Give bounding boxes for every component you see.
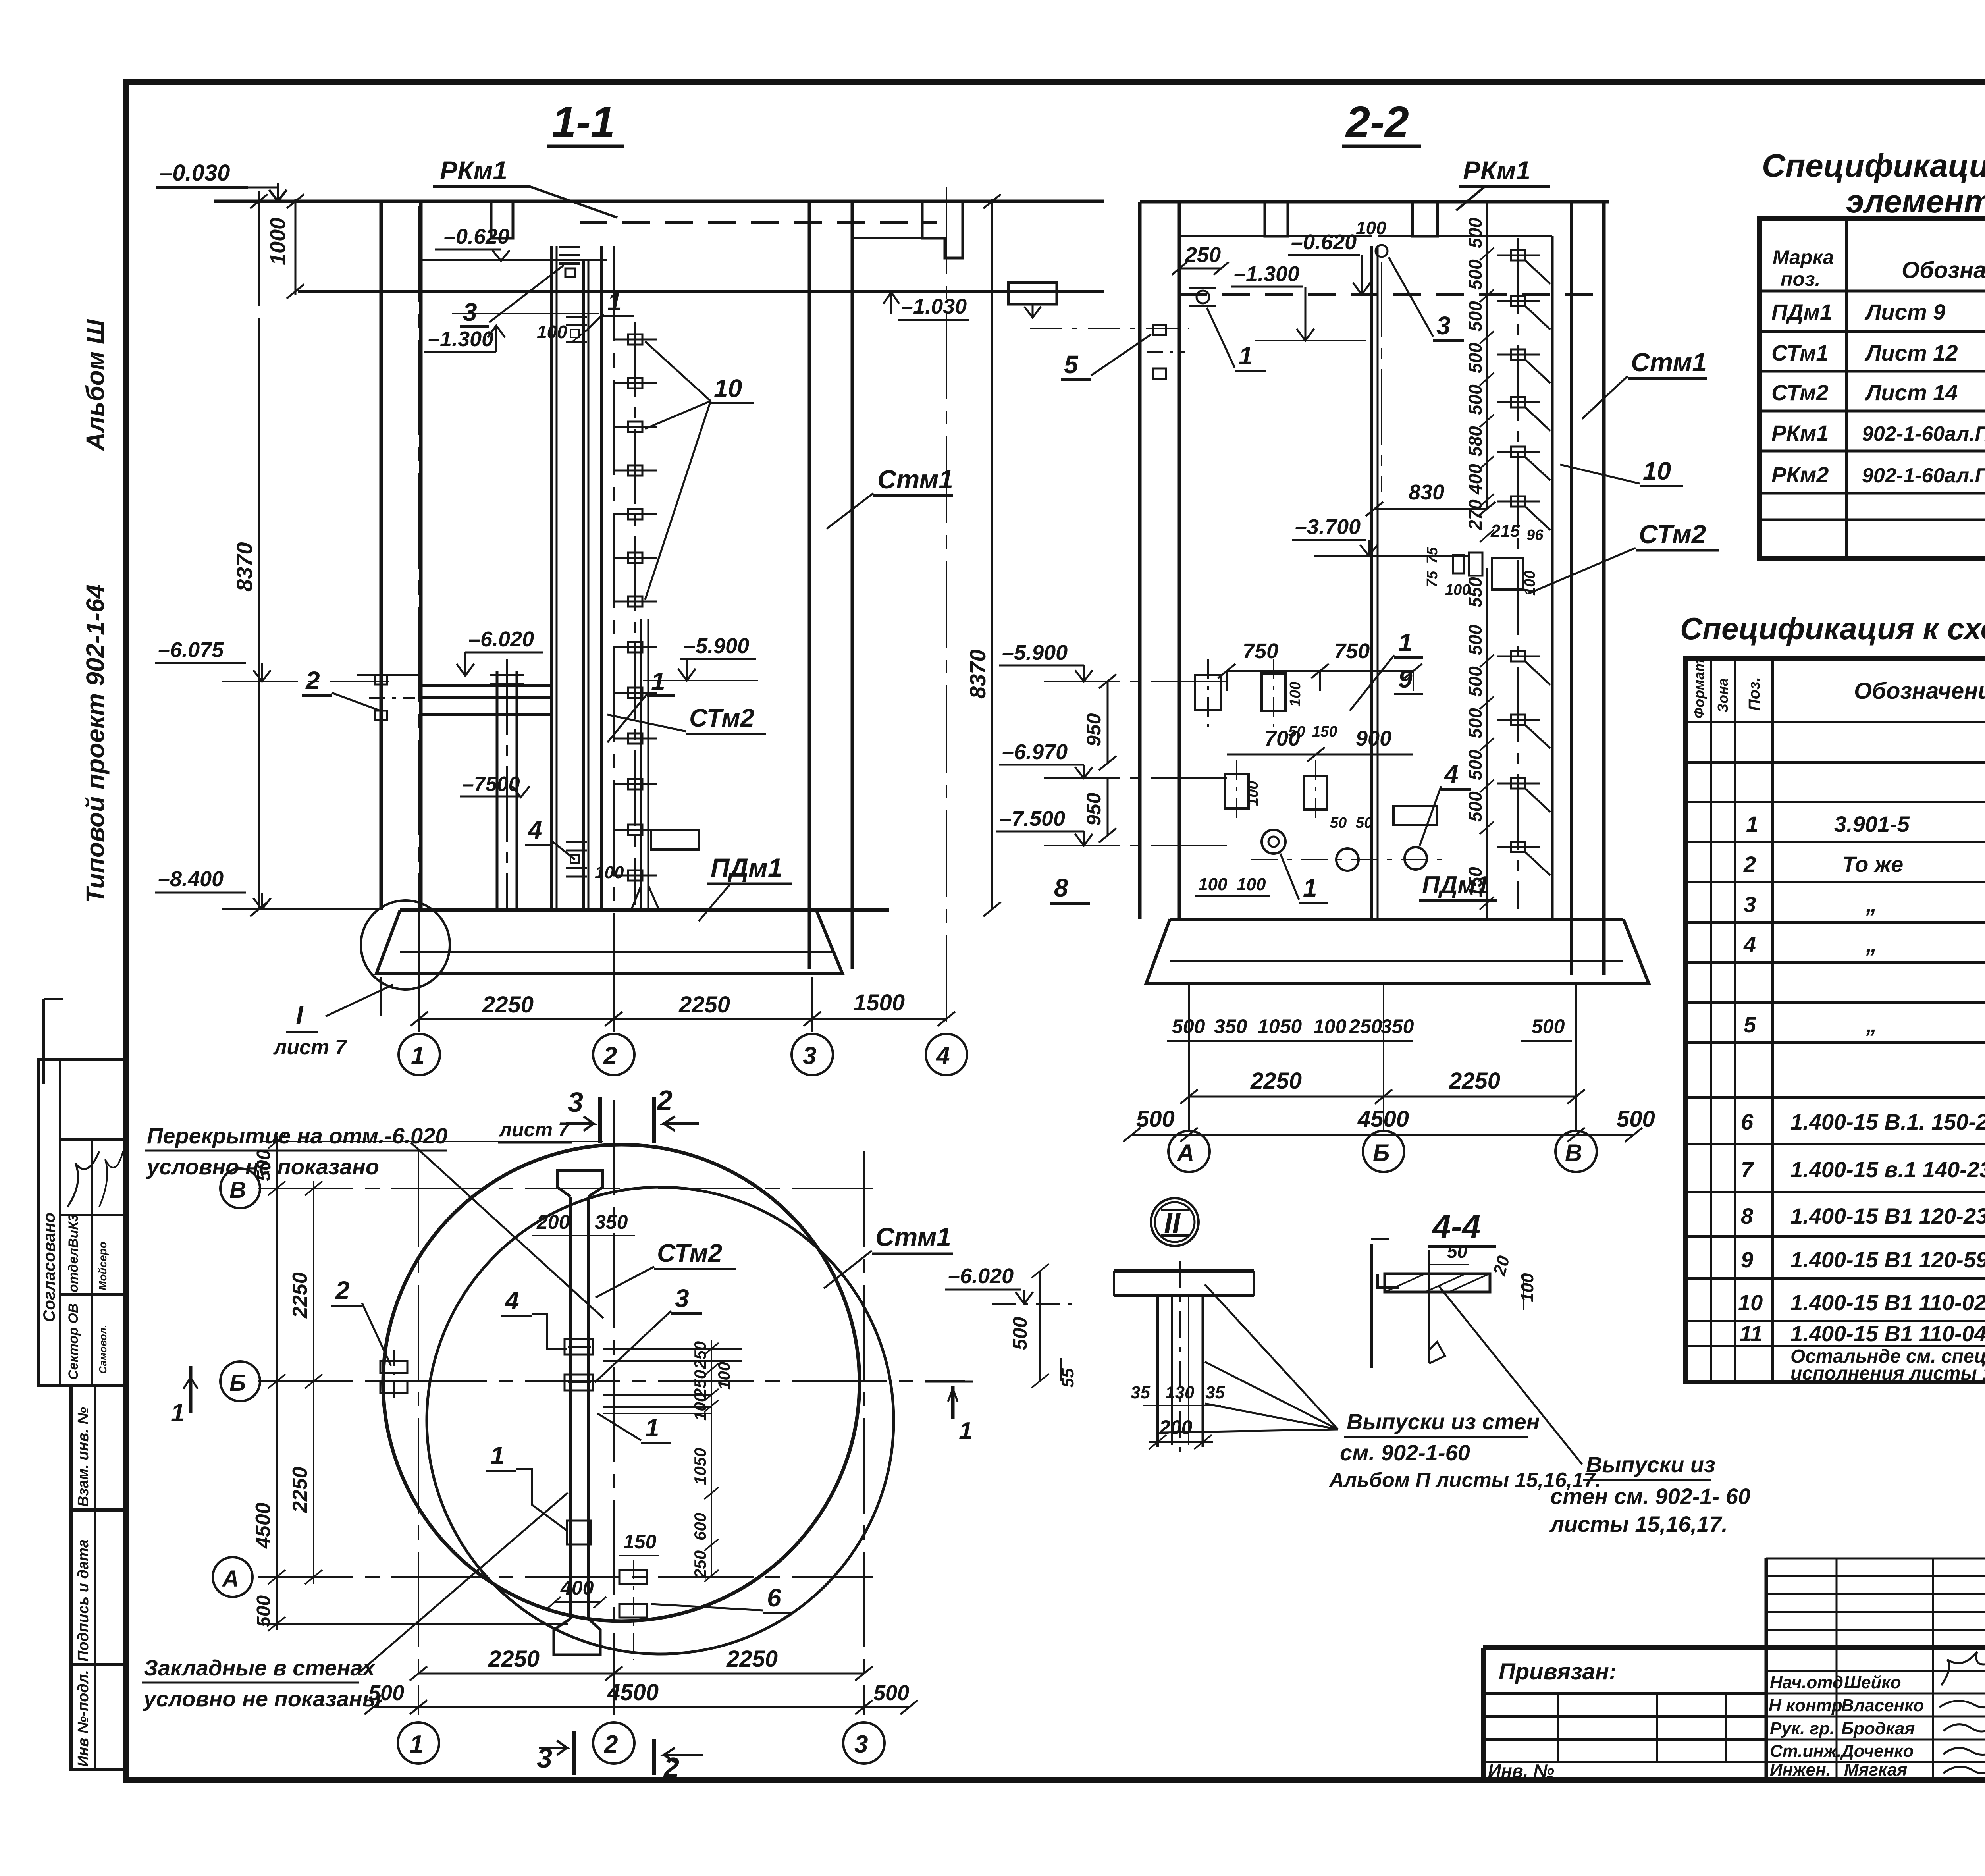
- svg-text:исполнения листы 12,14: исполнения листы 12,14: [1790, 1363, 1985, 1384]
- svg-text:100: 100: [1313, 1015, 1347, 1037]
- svg-text:1.400-15 В1 110-04: 1.400-15 В1 110-04: [1790, 1321, 1985, 1346]
- svg-text:поз.: поз.: [1781, 268, 1821, 290]
- svg-text:ПДм1: ПДм1: [711, 853, 782, 882]
- dim 250 (2-2): [1172, 243, 1229, 275]
- svg-text:3.901-5: 3.901-5: [1834, 812, 1910, 837]
- dashed top line (1-1): [580, 221, 937, 224]
- label 10 (2-2): [1560, 457, 1683, 486]
- svg-text:1: 1: [959, 1417, 972, 1445]
- section mark 2 top: [654, 1085, 699, 1143]
- svg-text:Нач.отд: Нач.отд: [1770, 1673, 1843, 1692]
- svg-text:200: 200: [536, 1211, 570, 1233]
- label 4 (1-1): [525, 816, 575, 860]
- svg-text:11: 11: [1740, 1321, 1763, 1346]
- table 2 grid: [1685, 659, 1985, 1382]
- label СТм2 (2-2): [1528, 519, 1719, 594]
- svg-text:50: 50: [1356, 815, 1372, 831]
- small dim 100 (1-1 top): [537, 322, 588, 342]
- svg-text:1.400-15 В.1. 150-26: 1.400-15 В.1. 150-26: [1790, 1109, 1985, 1134]
- svg-text:500: 500: [1465, 708, 1486, 738]
- svg-text:Б: Б: [1373, 1139, 1389, 1166]
- Подпись и дата box: [71, 1510, 126, 1664]
- dim 950 lower (2-2): [1083, 778, 1116, 843]
- rotated label Типовой проект 902-1-64: [81, 584, 110, 903]
- svg-text:500: 500: [1136, 1106, 1175, 1132]
- table 1 row РКм1: [1771, 420, 1985, 445]
- label 2 (1-1): [302, 666, 380, 711]
- svg-text:–5.900: –5.900: [684, 634, 749, 658]
- detail II slab: [1114, 1271, 1254, 1296]
- svg-text:Обозначение: Обозначение: [1902, 257, 1985, 283]
- bottom dimension chain (1-1): [381, 953, 955, 1032]
- svg-text:Спецификация к схеме располо: Спецификация к схеме расположения: [1762, 148, 1985, 184]
- note Выпуски из (4-4): [1549, 1452, 1750, 1537]
- svg-text:9: 9: [1398, 665, 1413, 693]
- dim 200 350 (plan): [532, 1211, 635, 1236]
- svg-text:Мойсеро: Мойсеро: [96, 1242, 109, 1290]
- table 2 row 3: [1744, 892, 1985, 917]
- dim 700 900 (2-2): [1227, 727, 1413, 762]
- table 1 row СТм1: [1771, 340, 1985, 365]
- svg-text:4-4: 4-4: [1432, 1208, 1480, 1245]
- Взам. инв. № box: [71, 1386, 126, 1510]
- signature rows: [1769, 1673, 1985, 1780]
- svg-text:условно не показаны: условно не показаны: [143, 1686, 382, 1711]
- base slab ПДм1 (1-1): [376, 910, 889, 974]
- svg-text:отделВиК3: отделВиК3: [66, 1214, 81, 1292]
- svg-text:1000: 1000: [266, 218, 290, 265]
- svg-text:100: 100: [1245, 781, 1261, 806]
- axis В line and circle: [220, 1168, 873, 1208]
- svg-text:1.400-15 В1 120-59: 1.400-15 В1 120-59: [1790, 1247, 1985, 1272]
- svg-text:750: 750: [1334, 639, 1370, 663]
- svg-text:100: 100: [1518, 1273, 1537, 1302]
- svg-text:стен см. 902-1- 60: стен см. 902-1- 60: [1550, 1484, 1750, 1509]
- svg-text:3: 3: [568, 1087, 583, 1118]
- section 1-1 title: [547, 98, 624, 147]
- right dim chain (plan): [691, 1340, 733, 1582]
- svg-text:1: 1: [411, 1042, 424, 1070]
- left small grid of title block: [1766, 1558, 1985, 1780]
- svg-text:лист 7: лист 7: [499, 1118, 570, 1141]
- label СТм1 (1-1): [827, 465, 953, 529]
- svg-text:–1.030: –1.030: [901, 295, 967, 318]
- svg-text:Взам. инв. №: Взам. инв. №: [75, 1407, 92, 1507]
- svg-text:400: 400: [560, 1577, 594, 1599]
- svg-text:35: 35: [1205, 1383, 1225, 1402]
- svg-text:СТм2: СТм2: [657, 1239, 722, 1267]
- left margin small mark: [44, 999, 63, 1084]
- table 2 header texts: [1691, 659, 1985, 719]
- svg-text:Лист 9: Лист 9: [1864, 299, 1945, 324]
- svg-text:35: 35: [1131, 1383, 1150, 1402]
- svg-text:950: 950: [1083, 792, 1105, 826]
- Инв № подл box: [71, 1664, 126, 1769]
- svg-text:500: 500: [253, 1149, 274, 1181]
- svg-text:Подпись и дата: Подпись и дата: [75, 1539, 92, 1662]
- label СТм2 (1-1): [607, 704, 766, 734]
- svg-text:Ст.инж.: Ст.инж.: [1770, 1741, 1842, 1761]
- svg-text:4: 4: [1443, 760, 1459, 789]
- middle wall right pair lower (1-1): [631, 619, 659, 910]
- level -7.500 small (1-1): [460, 773, 530, 797]
- label ПДм1 (1-1): [699, 853, 792, 921]
- fan leaders to Выпуски text: [1163, 1284, 1338, 1433]
- svg-text:–0.030: –0.030: [160, 160, 230, 186]
- svg-text:215: 215: [1490, 521, 1520, 541]
- svg-text:Формат: Формат: [1691, 659, 1707, 719]
- level mark -1.030 (1-1): [883, 291, 969, 320]
- svg-text:2250: 2250: [1250, 1068, 1302, 1094]
- svg-text:Самовол.: Самовол.: [97, 1325, 109, 1374]
- label 4 (2-2): [1420, 760, 1471, 846]
- roof notch РКм1 (1-1): [491, 201, 513, 238]
- roof notches (2-2): [1179, 202, 1552, 236]
- dim 830 (2-2): [1366, 480, 1495, 516]
- Согласовано box: [38, 1060, 126, 1386]
- item 5 reference rectangle between sections: [1008, 283, 1189, 328]
- svg-text:Альбом Ш: Альбом Ш: [81, 319, 110, 451]
- svg-text:–1.300: –1.300: [1234, 262, 1299, 286]
- intermediate slab -6.020 (1-1): [357, 675, 551, 698]
- svg-text:100: 100: [1237, 875, 1266, 894]
- note Перекрытие: [145, 1123, 603, 1318]
- labels 1 and 9 (2-2): [1350, 628, 1423, 711]
- labels 1 (plan): [597, 1413, 671, 1443]
- dim 400 (plan): [548, 1577, 606, 1608]
- svg-text:250: 250: [691, 1550, 709, 1579]
- svg-text:1: 1: [651, 667, 665, 696]
- gland item 5 on left wall (2-2): [1147, 325, 1185, 379]
- svg-text:То же: То же: [1842, 852, 1903, 877]
- svg-text:Н контр: Н контр: [1769, 1696, 1842, 1715]
- svg-text:В: В: [229, 1177, 246, 1203]
- svg-text:500: 500: [1465, 625, 1486, 655]
- table 2 row 10: [1738, 1290, 1985, 1315]
- bottom outlet gland (plan): [619, 1560, 647, 1660]
- top-right notch and edge (1-1): [852, 201, 963, 258]
- svg-text:Стм1: Стм1: [1631, 347, 1707, 377]
- svg-text:СТм2: СТм2: [1771, 380, 1829, 405]
- level mark -0.030: [156, 160, 287, 201]
- svg-text:СТм1: СТм1: [1771, 340, 1829, 365]
- svg-text:150: 150: [623, 1531, 657, 1553]
- svg-text:–6.020: –6.020: [468, 627, 534, 651]
- svg-text:950: 950: [1083, 713, 1105, 746]
- axis 2 vertical (plan): [593, 1100, 634, 1764]
- axis А line and circle: [213, 1557, 873, 1597]
- level mark -6.020 (1-1): [457, 627, 543, 676]
- svg-text:3: 3: [1436, 311, 1451, 340]
- bottom dim row 2250 2250 (2-2): [1180, 1068, 1585, 1104]
- table 2 row 11: [1740, 1321, 1985, 1346]
- svg-text:Стм1: Стм1: [877, 465, 953, 494]
- svg-text:1.400-15 В1 110-02: 1.400-15 В1 110-02: [1790, 1290, 1985, 1315]
- svg-text:500: 500: [1532, 1015, 1565, 1037]
- svg-text:500: 500: [1465, 301, 1486, 332]
- level mark -0.620 (1-1): [435, 225, 510, 261]
- svg-text:Рук. гр.: Рук. гр.: [1770, 1719, 1835, 1738]
- svg-text:1: 1: [645, 1413, 659, 1442]
- svg-text:3: 3: [675, 1284, 689, 1313]
- section mark 1 left: [171, 1366, 198, 1427]
- gland item 2 on left wall (1-1): [369, 675, 415, 720]
- dimension 1000 (1-1): [250, 191, 304, 306]
- leader to Выпуски из (4-4): [1439, 1286, 1582, 1464]
- svg-text:„: „: [1866, 932, 1877, 957]
- svg-text:500: 500: [1465, 791, 1486, 822]
- level mark -6.020 (detail II): [945, 1264, 1072, 1304]
- table 2 row 4: [1743, 932, 1985, 957]
- svg-text:902-1-60ал.П лист14: 902-1-60ал.П лист14: [1862, 464, 1985, 487]
- svg-text:Лист 14: Лист 14: [1864, 380, 1958, 405]
- svg-text:4: 4: [504, 1286, 519, 1315]
- label ПДм1 (2-2): [1419, 871, 1497, 900]
- svg-text:3: 3: [803, 1042, 816, 1070]
- svg-text:–7.500: –7.500: [1000, 807, 1065, 831]
- svg-text:250: 250: [1185, 243, 1221, 267]
- svg-text:250: 250: [691, 1341, 709, 1369]
- svg-text:листы 15,16,17.: листы 15,16,17.: [1549, 1512, 1728, 1537]
- note Выпуски из стен (detail II): [1328, 1409, 1601, 1492]
- axis 4 line (1-1): [946, 187, 947, 1032]
- note Закладные: [142, 1493, 568, 1711]
- svg-text:600: 600: [691, 1513, 709, 1541]
- svg-text:РКм1: РКм1: [1463, 156, 1530, 185]
- level mark -1.300 (2-2): [1231, 262, 1366, 341]
- svg-text:500: 500: [1465, 750, 1486, 780]
- svg-text:8370: 8370: [965, 649, 990, 699]
- svg-text:6: 6: [767, 1583, 781, 1612]
- label 8 (2-2): [1050, 873, 1090, 904]
- svg-text:Марка: Марка: [1773, 246, 1834, 268]
- svg-text:–8.400: –8.400: [158, 867, 224, 891]
- svg-text:–3.700: –3.700: [1295, 515, 1361, 539]
- gland circle item 3 (2-2): [1376, 245, 1388, 492]
- gland item 4 on middle wall (1-1): [566, 842, 587, 877]
- svg-text:2250: 2250: [488, 1646, 540, 1672]
- label 1 (1-1 top): [588, 287, 634, 330]
- bottom dim row 2250 2250 (plan): [410, 1646, 873, 1681]
- bottom dim row 500 4500 500 (plan): [364, 1679, 918, 1714]
- roof slab line -0.620 (1-1): [421, 259, 607, 261]
- svg-text:Шейко: Шейко: [1844, 1673, 1901, 1692]
- svg-text:см. 902-1-60: см. 902-1-60: [1340, 1440, 1470, 1465]
- svg-text:Типовой проект 902-1-64: Типовой проект 902-1-64: [81, 584, 110, 903]
- anchor stud chain (2-2): [1497, 238, 1550, 909]
- svg-text:10: 10: [1738, 1290, 1763, 1315]
- svg-text:150: 150: [1312, 723, 1337, 740]
- label 3 (1-1): [460, 265, 564, 326]
- table 1 grid: [1760, 218, 1985, 558]
- svg-text:580: 580: [1465, 426, 1486, 457]
- detail circle I (1-1): [273, 900, 450, 1059]
- level mark -6.075 (1-1): [155, 638, 389, 681]
- svg-text:500: 500: [1465, 259, 1486, 290]
- svg-text:РКм1: РКм1: [1771, 420, 1829, 445]
- svg-text:830: 830: [1409, 480, 1444, 504]
- svg-text:350: 350: [595, 1211, 628, 1233]
- svg-text:500: 500: [1465, 218, 1486, 248]
- СТм2 wall bar (plan): [554, 1170, 603, 1655]
- level mark -0.620 (2-2): [1288, 230, 1370, 295]
- svg-text:100: 100: [1198, 875, 1228, 894]
- svg-text:А: А: [1176, 1139, 1194, 1166]
- label 4 (plan): [501, 1286, 567, 1349]
- left wall (2-2): [1140, 202, 1179, 919]
- svg-text:СТм2: СТм2: [1639, 519, 1706, 549]
- svg-text:4: 4: [527, 816, 542, 844]
- svg-text:Стм1: Стм1: [875, 1222, 951, 1251]
- svg-text:Инв. №: Инв. №: [1488, 1760, 1554, 1781]
- dim 750 750 (2-2): [1218, 639, 1422, 691]
- svg-text:Выпуски из: Выпуски из: [1586, 1452, 1715, 1477]
- svg-text:2: 2: [656, 1085, 673, 1116]
- roof underside line -1.030 (1-1): [298, 290, 1104, 293]
- dimension 8370 left (1-1): [232, 318, 268, 916]
- svg-text:200: 200: [1159, 1416, 1193, 1438]
- section mark 2 bottom: [654, 1739, 703, 1783]
- label 3 (plan): [595, 1284, 702, 1382]
- table 1 header texts: [1773, 245, 1985, 290]
- gland item 1 on middle wall (1-1): [566, 317, 587, 342]
- svg-text:СТм2: СТм2: [689, 704, 754, 732]
- axis 3 vertical (plan): [843, 1151, 885, 1764]
- section mark 1 below detail II: [925, 1382, 973, 1445]
- svg-text:„: „: [1866, 892, 1877, 917]
- svg-text:2-2: 2-2: [1345, 98, 1409, 147]
- svg-text:элементов подземной части.: элементов подземной части.: [1846, 183, 1985, 220]
- svg-text:В: В: [1565, 1139, 1582, 1166]
- label 5 (2-2 left): [1061, 334, 1151, 380]
- dim 150 (plan): [619, 1531, 659, 1556]
- table 2 row 1: [1746, 812, 1985, 837]
- svg-text:8: 8: [1741, 1203, 1754, 1228]
- svg-text:100: 100: [691, 1393, 709, 1421]
- svg-text:50: 50: [1447, 1241, 1468, 1262]
- svg-text:100: 100: [595, 863, 624, 882]
- level mark -7.500 (2-2): [996, 807, 1227, 846]
- svg-text:700: 700: [1264, 727, 1300, 750]
- level mark -1.300 (1-1): [424, 314, 599, 352]
- svg-text:А: А: [222, 1566, 239, 1592]
- riser pipe (1-1 lower): [490, 659, 524, 910]
- svg-text:2: 2: [335, 1276, 350, 1305]
- svg-text:10: 10: [1643, 457, 1671, 485]
- label СТм1 (2-2): [1582, 347, 1707, 419]
- svg-text:4500: 4500: [252, 1502, 275, 1549]
- svg-text:500: 500: [1465, 666, 1486, 697]
- detail 4-4 drawing: [1371, 1239, 1490, 1368]
- rotated label Альбом III: [81, 319, 110, 451]
- svg-text:100: 100: [1356, 218, 1386, 238]
- axis circles 1 2 3 4 (1-1): [399, 1034, 967, 1075]
- outlet circles at base (2-2): [1251, 830, 1445, 871]
- glands on bar (plan): [565, 1339, 593, 1544]
- svg-text:2250: 2250: [289, 1467, 312, 1513]
- anchor stud chain (1-1): [613, 322, 657, 905]
- svg-text:2250: 2250: [726, 1646, 778, 1672]
- dim 950 upper (2-2): [1083, 674, 1116, 770]
- plan second circle: [427, 1187, 894, 1654]
- label 10 with leaders (1-1): [645, 341, 754, 600]
- plan bottom extension line: [262, 1623, 568, 1625]
- svg-text:Власенко: Власенко: [1841, 1696, 1924, 1715]
- svg-text:130: 130: [1165, 1383, 1195, 1402]
- level mark -5.900 (1-1 interior): [643, 634, 758, 681]
- signature scribbles: [1939, 1652, 1985, 1773]
- svg-text:Согласовано: Согласовано: [40, 1213, 58, 1322]
- svg-text:Мягкая: Мягкая: [1844, 1760, 1907, 1780]
- detail 4-4 dims: [1429, 1241, 1537, 1310]
- svg-text:350: 350: [1381, 1015, 1414, 1037]
- svg-text:900: 900: [1356, 727, 1391, 750]
- svg-text:4: 4: [1743, 932, 1756, 957]
- svg-text:ПДм1: ПДм1: [1771, 299, 1832, 324]
- svg-text:1050: 1050: [691, 1448, 709, 1485]
- svg-text:400: 400: [1465, 464, 1486, 495]
- detail 4-4 title: [1428, 1208, 1496, 1247]
- label РКм1 (2-2): [1456, 156, 1550, 210]
- detail II circle label: [1151, 1198, 1199, 1246]
- svg-text:100: 100: [1522, 571, 1538, 596]
- level mark -5.900 (2-2): [999, 641, 1227, 681]
- svg-text:1500: 1500: [854, 990, 905, 1016]
- gland pair at -6.970 (2-2): [1225, 760, 1372, 831]
- svg-text:350: 350: [1214, 1015, 1247, 1037]
- svg-text:Лист 12: Лист 12: [1864, 340, 1958, 365]
- table 2 row 7: [1741, 1157, 1985, 1182]
- ground line (1-1): [214, 200, 1104, 203]
- table 2 row 6: [1741, 1109, 1985, 1134]
- plan top extension line: [262, 1141, 603, 1142]
- svg-text:500: 500: [368, 1681, 404, 1705]
- closure plate rectangle (1-1): [651, 830, 699, 850]
- svg-text:1-1: 1-1: [552, 98, 615, 147]
- label РКм1 (1-1): [433, 156, 617, 218]
- middle wall СТм2 edge (2-2): [1372, 246, 1378, 919]
- section 2-2 title: [1342, 98, 1421, 147]
- svg-text:1.400-15 в.1 140-23: 1.400-15 в.1 140-23: [1790, 1157, 1985, 1182]
- label 3 (2-2): [1389, 257, 1464, 341]
- svg-text:„: „: [1866, 1012, 1877, 1037]
- svg-text:3: 3: [1744, 892, 1756, 917]
- svg-text:–5.900: –5.900: [1002, 641, 1068, 665]
- right wall (2-2): [1552, 202, 1604, 975]
- svg-text:500: 500: [1617, 1106, 1655, 1132]
- table 2 footer note: [1790, 1346, 1985, 1384]
- label 2 (plan): [331, 1276, 391, 1366]
- level mark -6.970 (2-2): [999, 740, 1227, 778]
- svg-text:ПДм1: ПДм1: [1422, 871, 1490, 899]
- intermediate slab lower line (1-1): [422, 713, 551, 716]
- section mark 3 bottom: [537, 1731, 574, 1775]
- title block thick borders: [1483, 1544, 1985, 1780]
- table 2 row 5: [1744, 1012, 1985, 1037]
- svg-text:Б: Б: [229, 1370, 246, 1396]
- svg-text:2250: 2250: [1449, 1068, 1500, 1094]
- tick lines right of bar (plan): [603, 1349, 742, 1413]
- detail II stem: [1158, 1261, 1203, 1453]
- svg-text:Сектор ОВ: Сектор ОВ: [66, 1303, 81, 1380]
- dimension 8370 right (1-1): [965, 194, 1001, 916]
- table 1 heading: [1762, 148, 1985, 220]
- svg-text:100: 100: [715, 1362, 733, 1390]
- svg-text:–7500: –7500: [463, 773, 520, 796]
- plate rect near 4 (2-2): [1393, 806, 1437, 825]
- table 2 row 8: [1741, 1203, 1985, 1228]
- svg-text:500: 500: [1465, 343, 1486, 373]
